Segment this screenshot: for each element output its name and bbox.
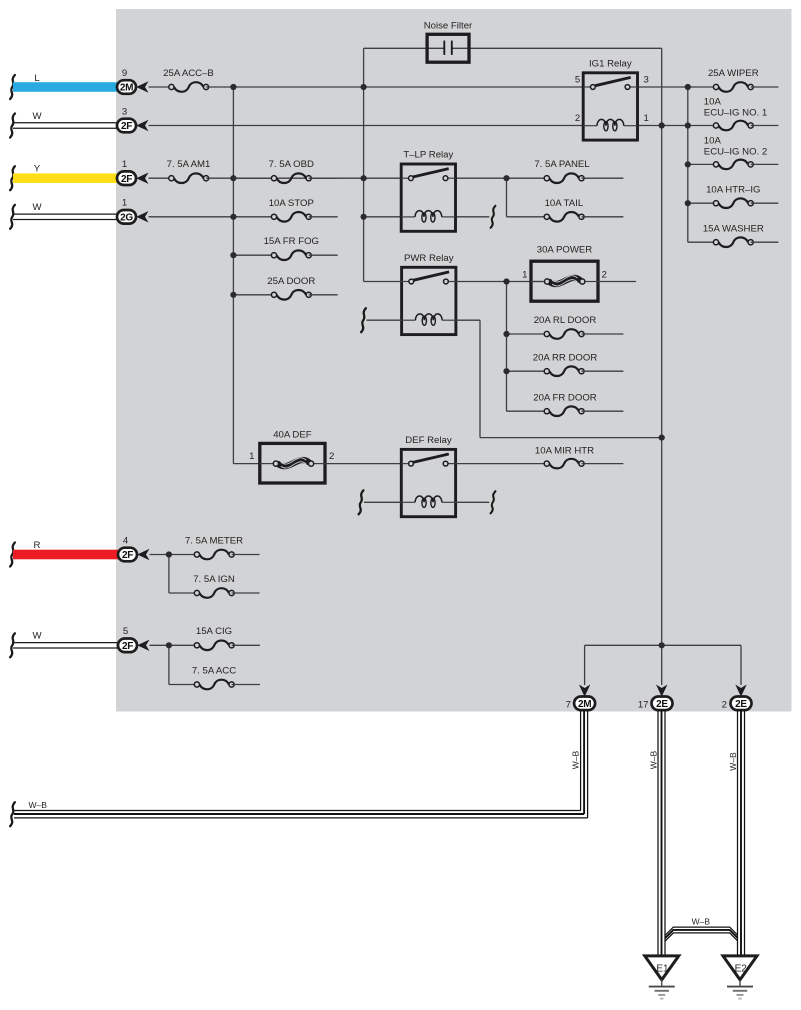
svg-text:W–B: W–B	[728, 752, 738, 771]
svg-text:2: 2	[575, 113, 580, 124]
svg-text:W–B: W–B	[571, 750, 581, 769]
svg-text:Noise Filter: Noise Filter	[424, 21, 473, 32]
svg-text:20A RL DOOR: 20A RL DOOR	[534, 315, 597, 326]
svg-text:10A: 10A	[704, 97, 722, 108]
svg-text:2: 2	[722, 700, 727, 711]
svg-text:2F: 2F	[122, 641, 133, 652]
svg-text:W–B: W–B	[649, 750, 659, 769]
svg-text:20A FR DOOR: 20A FR DOOR	[533, 392, 597, 403]
svg-text:7. 5A PANEL: 7. 5A PANEL	[534, 159, 590, 170]
svg-text:20A RR DOOR: 20A RR DOOR	[533, 352, 598, 363]
svg-text:25A WIPER: 25A WIPER	[708, 68, 759, 79]
svg-text:2G: 2G	[120, 212, 133, 223]
svg-text:E1: E1	[656, 964, 669, 975]
svg-text:40A DEF: 40A DEF	[273, 429, 312, 440]
svg-text:Y: Y	[34, 164, 41, 175]
svg-text:IG1 Relay: IG1 Relay	[589, 59, 632, 70]
svg-text:E2: E2	[735, 964, 748, 975]
svg-text:1: 1	[249, 451, 254, 462]
svg-text:PWR Relay: PWR Relay	[404, 253, 454, 264]
svg-text:3: 3	[122, 107, 127, 118]
svg-text:7. 5A ACC: 7. 5A ACC	[192, 665, 236, 676]
svg-text:25A DOOR: 25A DOOR	[267, 276, 315, 287]
svg-text:T–LP Relay: T–LP Relay	[403, 150, 453, 161]
svg-text:2M: 2M	[578, 699, 591, 710]
svg-text:5: 5	[123, 626, 128, 637]
svg-text:1: 1	[122, 159, 127, 170]
svg-text:10A MIR HTR: 10A MIR HTR	[535, 445, 594, 456]
svg-text:ECU–IG NO. 2: ECU–IG NO. 2	[704, 147, 767, 158]
svg-text:DEF Relay: DEF Relay	[405, 435, 452, 446]
svg-text:2F: 2F	[121, 174, 132, 185]
svg-text:1: 1	[122, 198, 127, 209]
svg-text:R: R	[34, 540, 41, 551]
svg-text:2: 2	[329, 451, 334, 462]
svg-text:2M: 2M	[120, 83, 133, 94]
svg-text:25A ACC–B: 25A ACC–B	[163, 68, 214, 79]
svg-text:2E: 2E	[656, 699, 668, 710]
svg-text:10A: 10A	[704, 135, 722, 146]
svg-text:4: 4	[123, 536, 129, 547]
svg-text:1: 1	[644, 113, 649, 124]
svg-text:2F: 2F	[122, 550, 133, 561]
svg-text:9: 9	[122, 68, 127, 79]
svg-text:10A TAIL: 10A TAIL	[545, 198, 584, 209]
svg-text:W: W	[32, 111, 42, 122]
svg-text:15A CIG: 15A CIG	[196, 626, 232, 637]
svg-text:W–B: W–B	[29, 800, 48, 810]
svg-text:7. 5A OBD: 7. 5A OBD	[269, 159, 314, 170]
svg-text:10A STOP: 10A STOP	[269, 198, 314, 209]
svg-text:W: W	[32, 631, 42, 642]
svg-text:L: L	[34, 73, 40, 84]
svg-text:W–B: W–B	[692, 916, 711, 926]
svg-text:2E: 2E	[735, 699, 747, 710]
svg-text:1: 1	[522, 270, 527, 281]
svg-text:30A POWER: 30A POWER	[537, 245, 593, 256]
svg-text:15A WASHER: 15A WASHER	[703, 223, 764, 234]
svg-text:W: W	[32, 202, 42, 213]
svg-text:7. 5A IGN: 7. 5A IGN	[193, 574, 235, 585]
svg-text:7: 7	[566, 700, 571, 711]
svg-text:7. 5A AM1: 7. 5A AM1	[167, 159, 211, 170]
svg-text:7. 5A METER: 7. 5A METER	[185, 536, 243, 547]
svg-text:15A FR FOG: 15A FR FOG	[264, 236, 319, 247]
svg-text:2: 2	[602, 270, 607, 281]
svg-text:17: 17	[638, 700, 649, 711]
svg-text:2F: 2F	[121, 121, 132, 132]
svg-text:10A HTR–IG: 10A HTR–IG	[706, 184, 760, 195]
svg-text:5: 5	[575, 75, 580, 86]
svg-text:3: 3	[644, 75, 649, 86]
svg-text:ECU–IG NO. 1: ECU–IG NO. 1	[704, 108, 767, 119]
